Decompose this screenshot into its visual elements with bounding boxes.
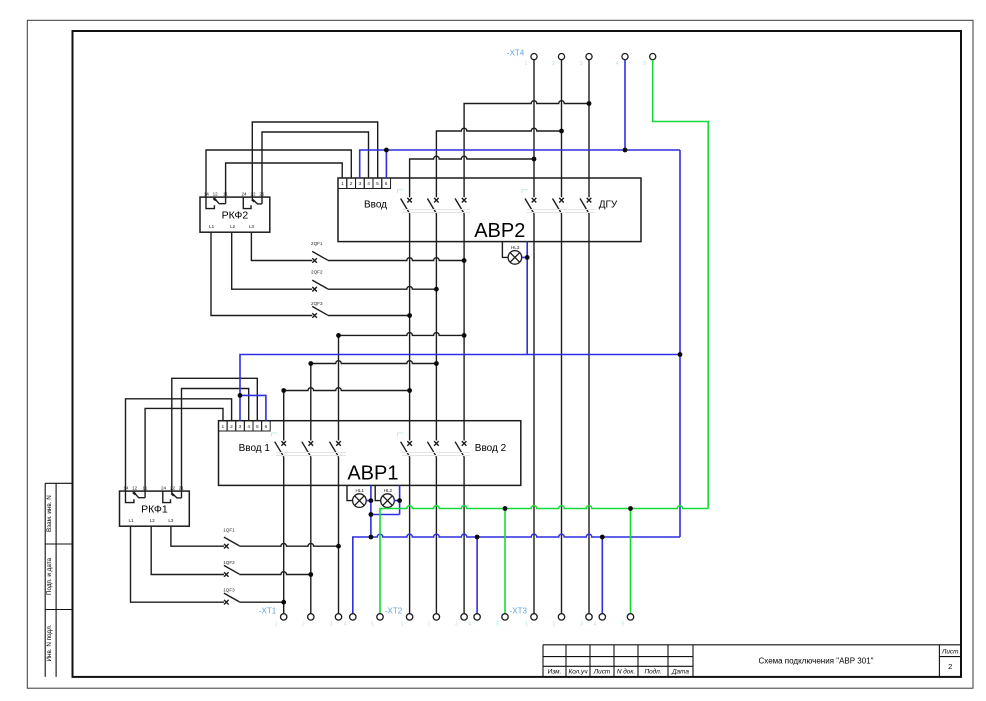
node row3 / Ввод2-3: [462, 333, 467, 338]
circuit breaker 1QF2: [224, 572, 229, 577]
svg-text:HL3: HL3: [511, 245, 520, 250]
lower green bus XT1-5 to right vertical: [380, 506, 708, 614]
wire РКФ2 L2 to 2QF2: [232, 232, 313, 289]
svg-text:21: 21: [179, 485, 185, 490]
wire РКФ2 pin21 to АВР2 strip cell4: [262, 132, 369, 204]
wire row: АВР2 Ввод pole1 top to XT4-1: [410, 156, 534, 197]
title block column labels: [548, 668, 690, 676]
svg-text:3: 3: [455, 622, 458, 628]
АВР1 terminal strip 1-6: [219, 421, 271, 431]
svg-text:2QF3: 2QF3: [311, 301, 323, 306]
svg-text:2: 2: [552, 622, 555, 628]
node 1QF3 / XT1-1: [281, 600, 286, 605]
svg-text:АВР2: АВР2: [474, 220, 525, 242]
wire blue branch to АВР1 strip cell6: [240, 395, 266, 420]
terminal -XT2:3: [461, 614, 467, 620]
wire РКФ2 L1 to 2QF3: [211, 232, 312, 315]
link mark АВР1 Ввод1: [272, 433, 278, 436]
terminal -XT1:2: [308, 614, 314, 620]
wire РКФ1 L1 to 1QF3: [131, 526, 225, 602]
green wire XT4-5 down right side: [653, 60, 709, 509]
wire АВР1 Ввод1 pole3 bottom to XT1-3: [338, 457, 340, 614]
РКФ2 pin numbers 14 12 11 24 22 21: [204, 191, 265, 196]
svg-text:2: 2: [302, 622, 305, 628]
terminal -XT4:1: [531, 54, 537, 60]
svg-text:1: 1: [341, 181, 344, 187]
wire XT4-1 down to ДГУ pole1: [533, 60, 535, 198]
mechanical link lines АВР2 Ввод: [402, 210, 470, 213]
svg-text:14: 14: [204, 191, 210, 196]
wire row: АВР1 Ввод1 pole2 top to АВР2 Ввод pole2 bottom: [311, 361, 437, 364]
svg-text:Подп.: Подп.: [644, 668, 661, 676]
wire blue branch to XT3-4: [601, 537, 603, 614]
svg-text:HL2: HL2: [384, 488, 393, 493]
circuit breaker 1QF1: [224, 544, 229, 549]
circuit breaker АВР2 ДГУ pole3: [587, 198, 592, 203]
wire АВР2 Ввод pole2 bottom to АВР1 Ввод2 pole2: [435, 214, 437, 441]
terminal -XT3:4: [599, 614, 605, 620]
circuit breaker 2QF2: [312, 287, 317, 292]
wire row: АВР2 Ввод pole2 top to XT4-2: [436, 128, 561, 197]
РКФ2 pins L1 L2 L3: [209, 224, 254, 229]
svg-text:-XT4: -XT4: [507, 48, 525, 57]
terminal -XT3:2: [558, 614, 564, 620]
terminal -XT3:5: [627, 614, 633, 620]
wire РКФ2 pin11 to АВР2 strip cell1: [226, 163, 343, 204]
РКФ1 pin numbers 14 12 11 24 22 21: [123, 485, 184, 490]
circuit breaker 2QF1: [312, 258, 317, 263]
svg-text:3: 3: [580, 622, 583, 628]
wire АВР2 ДГУ pole3 bottom to XT3-3: [588, 214, 590, 614]
node row2 / Ввод2-2: [434, 361, 439, 366]
terminal -XT1:3: [335, 614, 341, 620]
svg-text:2: 2: [427, 622, 430, 628]
wire XT4-4 down to blue bus: [624, 60, 626, 150]
blue right vertical XT4/АВР2 to lower bus: [679, 150, 681, 537]
wire 2QF1 output row: [328, 258, 464, 261]
svg-text:3: 3: [329, 622, 332, 628]
svg-text:1: 1: [524, 61, 527, 67]
svg-text:L1: L1: [129, 518, 135, 523]
wire АВР1 Ввод2 pole1 bottom to XT2-1: [409, 457, 411, 614]
wire РКФ2 L3 to 2QF1: [251, 232, 312, 260]
circuit breaker 1QF3: [224, 600, 229, 605]
node green bus / XT2-5: [503, 506, 508, 511]
wire АВР1 Ввод1 pole1 bottom to XT1-1: [283, 457, 285, 614]
lamp HL3: [508, 251, 522, 265]
wire to АВР1 Ввод1 pole1: [283, 391, 285, 441]
svg-text:-XT2: -XT2: [385, 607, 403, 616]
circuit breaker АВР1 Ввод2 pole2: [434, 441, 439, 446]
lamp HL2: [381, 494, 395, 508]
terminal -XT1:5: [377, 614, 383, 620]
terminal -XT3:1: [531, 614, 537, 620]
svg-text:6: 6: [265, 424, 268, 430]
wire АВР1 Ввод2 pole3 bottom to XT2-3: [463, 457, 465, 614]
node АВР1 cell3 branch: [238, 393, 243, 398]
svg-text:2: 2: [948, 662, 952, 671]
wire АВР2 ДГУ pole1 bottom to XT3-1: [533, 214, 535, 614]
svg-text:3: 3: [579, 61, 582, 67]
svg-text:АВР1: АВР1: [347, 463, 398, 485]
wire 1QF3 output row: [239, 601, 283, 603]
svg-text:Инв. N подл.: Инв. N подл.: [46, 624, 53, 661]
lower blue bus XT1-4 to right vertical: [353, 534, 680, 614]
svg-text:Дата: Дата: [671, 669, 689, 676]
wire АВР2 Ввод pole1 bottom to АВР1 Ввод2 pole1: [409, 214, 411, 441]
terminal -XT4:5: [650, 54, 656, 60]
circuit breaker АВР2 ДГУ pole1: [532, 198, 537, 203]
svg-text:2QF1: 2QF1: [311, 241, 323, 246]
svg-text:2QF2: 2QF2: [311, 270, 323, 275]
svg-text:Ввод: Ввод: [364, 199, 387, 210]
wire РКФ2 pin14 to АВР2 strip cell2: [206, 150, 351, 209]
wire HL1 right to lower blue bus: [366, 485, 371, 537]
node blue bus / XT2-4: [475, 535, 480, 540]
wire blue branch to АВР2 strip cell6: [385, 150, 387, 178]
terminal -XT2:1: [406, 614, 412, 620]
svg-text:L2: L2: [150, 518, 156, 523]
node row1 / Ввод2-1: [407, 388, 412, 393]
svg-text:N док.: N док.: [617, 668, 635, 676]
mechanical link lines АВР1 Ввод2: [402, 453, 470, 456]
svg-text:РКФ2: РКФ2: [222, 210, 249, 222]
circuit breaker АВР1 Ввод1 pole2: [309, 441, 314, 446]
svg-text:L3: L3: [249, 224, 255, 229]
terminal -XT4:3: [586, 54, 592, 60]
svg-text:L3: L3: [168, 518, 174, 523]
terminal -XT4:4: [622, 54, 628, 60]
svg-text:14: 14: [123, 485, 129, 490]
terminal -XT2:5: [502, 614, 508, 620]
svg-text:L2: L2: [230, 224, 236, 229]
wire АВР2 ДГУ pole2 bottom to XT3-2: [561, 214, 563, 614]
circuit breaker АВР2 Ввод pole2: [434, 198, 439, 203]
circuit breaker АВР1 Ввод2 pole1: [407, 441, 412, 446]
svg-text:ДГУ: ДГУ: [599, 199, 618, 210]
node blue mid bus / right vertical: [678, 352, 683, 357]
wire 2QF3 output row: [328, 315, 410, 317]
node blue bus / XT3-4: [600, 535, 605, 540]
circuit breaker 2QF3: [312, 313, 317, 318]
svg-text:4: 4: [468, 622, 471, 628]
svg-text:22: 22: [170, 485, 176, 490]
svg-text:Ввод 2: Ввод 2: [475, 443, 507, 454]
left stamp boxes: [45, 483, 72, 677]
wire blue branch to XT2-4: [476, 537, 478, 614]
svg-text:4: 4: [593, 622, 596, 628]
svg-text:1QF3: 1QF3: [223, 588, 235, 593]
svg-text:5: 5: [643, 61, 646, 67]
mechanical link lines АВР1 Ввод1: [276, 453, 346, 456]
wire green branch to XT2-5: [504, 509, 506, 614]
wire РКФ1 L3 to 1QF1: [171, 526, 224, 546]
node blue bus / cell6: [384, 148, 389, 153]
wire 1QF1 output row: [239, 543, 338, 546]
lamp HL1: [353, 494, 367, 508]
svg-text:11: 11: [223, 191, 228, 196]
wire 2QF2 output row: [328, 286, 437, 289]
wire row: АВР1 Ввод1 pole3 top to АВР2 Ввод pole3 bottom: [339, 333, 465, 336]
circuit breaker АВР1 Ввод2 pole3: [462, 441, 467, 446]
svg-text:2: 2: [230, 424, 233, 430]
РКФ1 changeover contact left (pins 14-12-11): [134, 492, 146, 498]
svg-text:Изм.: Изм.: [548, 669, 562, 676]
relay РКФ1 box: [120, 491, 190, 526]
terminal -XT2:4: [474, 614, 480, 620]
node XT4-2 / Ввод2 tie: [559, 129, 564, 134]
svg-text:2: 2: [552, 61, 555, 67]
circuit breaker АВР1 Ввод1 pole3: [336, 441, 341, 446]
АВР2 terminal strip 1-6: [338, 178, 391, 189]
svg-text:4: 4: [615, 61, 618, 67]
wire HL3 to blue bus: [522, 242, 528, 355]
svg-text:L1: L1: [209, 224, 215, 229]
blue mid bus to АВР1 strip cell3: [240, 355, 680, 421]
wire АВР1 strip cell1 to РКФ1 pin11: [145, 408, 223, 497]
svg-text:1: 1: [275, 622, 278, 628]
svg-text:5: 5: [496, 622, 499, 628]
svg-text:12: 12: [213, 191, 219, 196]
svg-text:3: 3: [239, 424, 242, 430]
link mark АВР1 Ввод2: [398, 433, 404, 436]
svg-text:12: 12: [132, 485, 138, 490]
terminal -XT1:4: [350, 614, 356, 620]
node row1 top: [281, 388, 286, 393]
svg-text:4: 4: [344, 622, 347, 628]
svg-text:Взам. инв. N: Взам. инв. N: [46, 495, 53, 532]
svg-text:HL1: HL1: [355, 488, 364, 493]
node XT4-3 / Ввод3 tie: [587, 101, 592, 106]
svg-text:5: 5: [256, 424, 259, 430]
node row2 top: [308, 361, 313, 366]
svg-text:1: 1: [221, 424, 224, 430]
node XT4-1 / Ввод1 tie: [532, 157, 537, 162]
svg-text:3: 3: [359, 181, 362, 187]
title block table: [543, 645, 961, 677]
svg-text:22: 22: [250, 191, 256, 196]
wire РКФ2 pin22 to АВР2 strip cell5: [252, 122, 377, 199]
svg-text:21: 21: [259, 191, 265, 196]
panel АВР1 box: [219, 421, 521, 486]
node blue bus / HL vertical: [369, 535, 374, 540]
node HL link corner: [369, 512, 374, 517]
svg-text:Ввод 1: Ввод 1: [239, 443, 271, 454]
wire АВР1 strip cell5 to РКФ1 pin22: [172, 378, 257, 493]
wire АВР2 box to lamp HL3: [502, 242, 508, 258]
wire РКФ1 L2 to 1QF2: [151, 526, 224, 574]
svg-text:Подп. и дата: Подп. и дата: [46, 557, 53, 595]
wire to АВР1 Ввод1 pole2: [310, 364, 312, 441]
terminal -XT3:3: [586, 614, 592, 620]
svg-text:2: 2: [350, 181, 353, 187]
svg-text:-XT1: -XT1: [259, 607, 277, 616]
wire АВР2 Ввод pole3 bottom to АВР1 Ввод2 pole3: [463, 214, 465, 441]
terminal -XT4:2: [558, 54, 564, 60]
svg-text:Лист: Лист: [941, 648, 959, 655]
circuit breaker АВР2 Ввод pole3: [462, 198, 467, 203]
node green bus / XT3-5: [628, 506, 633, 511]
relay РКФ2 box: [200, 197, 270, 232]
blue top bus АВР2 cell3/cell6 to right side: [360, 150, 680, 178]
svg-text:1QF2: 1QF2: [223, 560, 235, 565]
node 1QF1 / XT1-3: [336, 544, 341, 549]
wire АВР1 strip cell4 to РКФ1 pin21: [182, 389, 249, 498]
node row3 top: [336, 333, 341, 338]
wire row: АВР2 Ввод pole3 top to XT4-3: [464, 101, 589, 198]
circuit breaker АВР2 ДГУ pole2: [559, 198, 564, 203]
wire АВР1 strip cell2 to РКФ1 pin14: [126, 399, 232, 503]
node XT4-4 on blue bus: [623, 148, 628, 153]
node 2QF3 / АВР2 Ввод1: [407, 313, 412, 318]
circuit breaker АВР2 Ввод pole1: [407, 198, 412, 203]
mechanical link lines АВР2 ДГУ: [527, 210, 595, 213]
svg-text:Кол.уч: Кол.уч: [568, 669, 588, 676]
svg-text:5: 5: [621, 622, 624, 628]
svg-text:-XT3: -XT3: [510, 607, 528, 616]
svg-text:4: 4: [247, 424, 250, 430]
circuit breaker АВР1 Ввод1 pole1: [281, 441, 286, 446]
node 2QF1 / АВР2 Ввод3: [462, 258, 467, 263]
РКФ2 changeover contact left (pins 14-12-11): [214, 198, 226, 204]
svg-text:1QF1: 1QF1: [223, 528, 235, 533]
svg-text:6: 6: [385, 181, 388, 187]
svg-text:11: 11: [143, 485, 148, 490]
wire XT4-2 down to ДГУ pole2: [561, 60, 563, 198]
wire 1QF2 output row: [239, 572, 310, 575]
node 2QF2 / АВР2 Ввод2: [434, 287, 439, 292]
svg-text:24: 24: [161, 485, 167, 490]
svg-text:1: 1: [525, 622, 528, 628]
wire row: АВР1 Ввод1 pole1 top to АВР2 Ввод pole1 bottom: [284, 388, 410, 391]
svg-text:1: 1: [401, 622, 404, 628]
wire to АВР1 Ввод1 pole3: [338, 335, 340, 440]
node HL3 / blue: [525, 255, 530, 260]
РКФ1 pins L1 L2 L3: [129, 518, 174, 523]
wire XT4-3 down to ДГУ pole3: [588, 60, 590, 198]
svg-text:24: 24: [241, 191, 247, 196]
svg-text:РКФ1: РКФ1: [141, 504, 168, 516]
wire АВР1 box to lamp HL1: [347, 485, 353, 500]
РКФ1 changeover contact right (pins 24-22-21): [163, 491, 171, 503]
wire АВР1 box to lamp HL2: [375, 485, 381, 500]
wire АВР1 Ввод1 pole2 bottom to XT1-2: [310, 457, 312, 614]
wire HL2 right / link to HL1: [371, 485, 400, 514]
wire green branch to XT3-5: [630, 509, 632, 614]
svg-text:Лист: Лист: [593, 669, 611, 676]
panel АВР2 box: [338, 178, 641, 242]
svg-text:4: 4: [367, 181, 370, 187]
terminal -XT1:1: [281, 614, 287, 620]
wire АВР1 Ввод2 pole2 bottom to XT2-2: [435, 457, 437, 614]
svg-text:5: 5: [371, 622, 374, 628]
РКФ2 changeover contact right (pins 24-22-21): [243, 197, 251, 209]
svg-text:Схема подключения "АВР 301": Схема подключения "АВР 301": [759, 656, 874, 665]
svg-text:5: 5: [376, 181, 379, 187]
node HL2 right: [397, 498, 402, 503]
terminal -XT2:2: [433, 614, 439, 620]
link mark АВР2 Ввод: [398, 190, 404, 193]
link mark АВР2 ДГУ: [522, 190, 528, 193]
node HL1 right: [369, 498, 374, 503]
node 1QF2 / XT1-2: [308, 572, 313, 577]
